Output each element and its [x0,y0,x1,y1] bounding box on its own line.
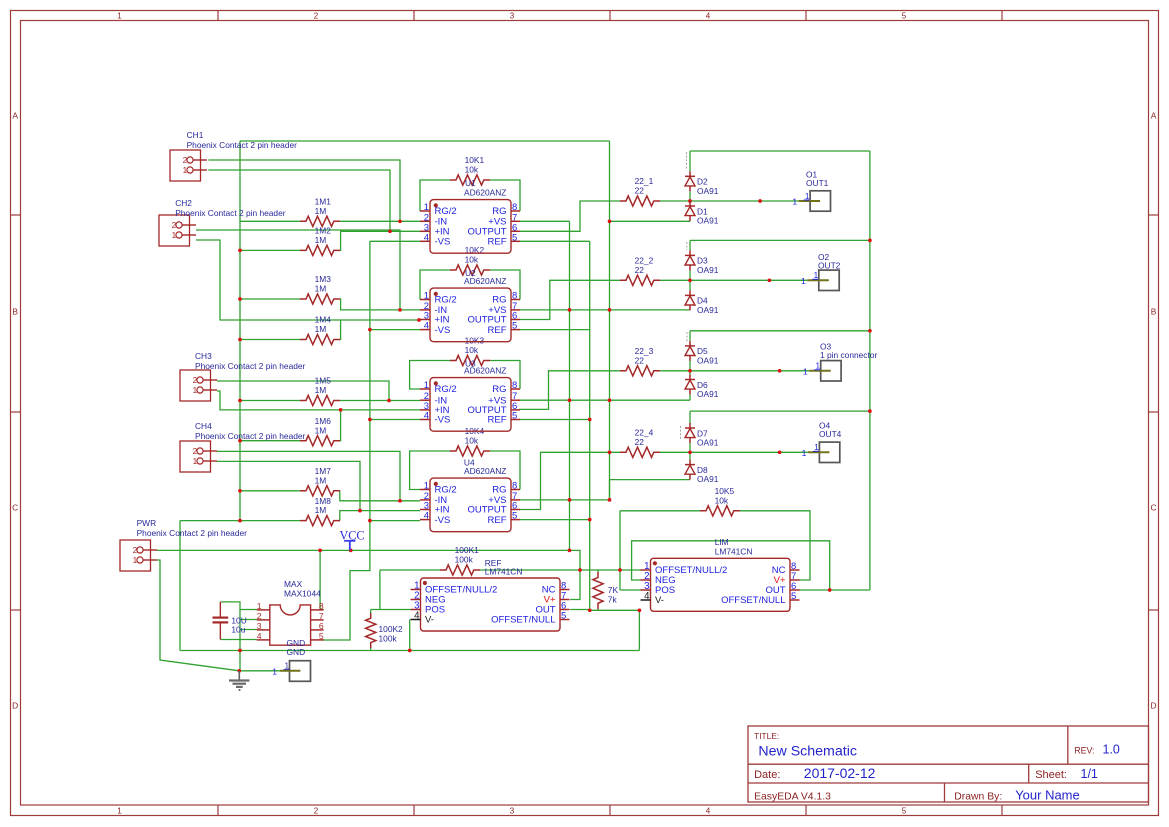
svg-text:1M: 1M [315,425,327,435]
svg-text:100k: 100k [455,555,474,565]
svg-text:5: 5 [512,411,517,422]
svg-text:OFFSET/NULL: OFFSET/NULL [491,615,555,626]
svg-text:D: D [12,701,18,711]
svg-text:4: 4 [424,232,429,243]
svg-text:D: D [1150,701,1156,711]
svg-text:1: 1 [117,806,122,815]
svg-text:A: A [1151,111,1157,121]
svg-text:10k: 10k [465,345,479,355]
svg-text:OA91: OA91 [697,305,719,315]
svg-text:LM741CN: LM741CN [715,547,753,557]
svg-text:OA91: OA91 [697,474,719,484]
svg-text:22: 22 [635,186,645,196]
svg-text:-VS: -VS [435,237,451,248]
svg-text:1: 1 [424,291,429,302]
svg-text:4: 4 [424,321,429,332]
svg-text:Phoenix Contact 2 pin header: Phoenix Contact 2 pin header [137,528,248,538]
svg-text:1 pin connector: 1 pin connector [820,350,877,360]
svg-text:EasyEDA V4.1.3: EasyEDA V4.1.3 [754,791,831,802]
svg-text:REF: REF [488,515,507,526]
svg-text:3: 3 [257,621,262,631]
svg-text:AD620ANZ: AD620ANZ [464,276,506,286]
svg-text:4: 4 [424,511,429,522]
svg-text:CH4: CH4 [195,421,212,431]
svg-text:B: B [1151,307,1157,317]
svg-text:5: 5 [512,321,517,332]
svg-text:V-: V- [655,595,664,606]
svg-text:6: 6 [319,621,324,631]
svg-text:C: C [12,503,18,513]
svg-text:4: 4 [706,806,711,815]
svg-text:OA91: OA91 [697,216,719,226]
svg-text:5: 5 [902,806,907,815]
svg-text:PWR: PWR [137,518,157,528]
svg-text:4: 4 [706,12,711,21]
svg-text:4: 4 [644,591,650,602]
svg-text:GND: GND [287,647,306,657]
svg-text:3: 3 [510,12,515,21]
svg-text:2017-02-12: 2017-02-12 [804,765,876,781]
svg-text:RG: RG [492,384,506,395]
svg-text:CH2: CH2 [175,198,192,208]
svg-text:1: 1 [792,197,797,207]
svg-text:1.0: 1.0 [1103,743,1120,757]
svg-text:1M: 1M [315,206,327,216]
svg-text:1: 1 [814,443,819,452]
svg-text:RG/2: RG/2 [435,485,457,496]
svg-text:OUT1: OUT1 [806,178,829,188]
svg-text:10u: 10u [231,625,245,635]
svg-text:5: 5 [319,631,324,641]
svg-text:1: 1 [172,231,177,240]
svg-text:-VS: -VS [435,515,451,526]
svg-text:OFFSET/NULL: OFFSET/NULL [721,595,785,606]
svg-text:1: 1 [257,601,262,611]
svg-text:Phoenix Contact 2 pin header: Phoenix Contact 2 pin header [195,431,306,441]
svg-text:1: 1 [801,276,806,286]
svg-text:1: 1 [424,380,429,391]
svg-text:OUT4: OUT4 [819,429,842,439]
svg-text:5: 5 [561,611,566,622]
svg-text:Your Name: Your Name [1015,788,1080,803]
svg-text:OA91: OA91 [697,186,719,196]
svg-text:MAX: MAX [284,579,303,589]
svg-text:LM741CN: LM741CN [485,567,523,577]
svg-text:2: 2 [314,12,319,21]
svg-text:1: 1 [193,386,198,395]
svg-text:Phoenix Contact 2 pin header: Phoenix Contact 2 pin header [187,140,298,150]
svg-text:2: 2 [193,376,198,385]
svg-text:OA91: OA91 [697,356,719,366]
svg-text:Date:: Date: [754,769,780,781]
svg-text:Phoenix Contact 2 pin header: Phoenix Contact 2 pin header [175,208,286,218]
svg-text:1: 1 [193,457,198,466]
svg-text:1M: 1M [315,235,327,245]
svg-text:22: 22 [635,437,645,447]
svg-text:2: 2 [257,611,262,621]
svg-text:REF: REF [488,237,507,248]
svg-text:New Schematic: New Schematic [758,743,857,759]
svg-text:B: B [12,307,18,317]
svg-text:100k: 100k [379,634,398,644]
svg-text:LIM: LIM [715,537,729,547]
svg-text:AD620ANZ: AD620ANZ [464,466,506,476]
svg-text:V-: V- [425,615,434,626]
svg-text:8: 8 [512,481,517,492]
svg-text:Phoenix Contact 2 pin header: Phoenix Contact 2 pin header [195,361,306,371]
svg-text:REF: REF [488,325,507,336]
svg-text:5: 5 [512,511,517,522]
svg-text:1: 1 [803,366,808,376]
svg-text:-VS: -VS [435,415,451,426]
svg-text:MAX1044: MAX1044 [284,589,321,599]
svg-text:1: 1 [805,192,810,201]
svg-text:-VS: -VS [435,325,451,336]
svg-text:1M: 1M [315,505,327,515]
svg-text:10k: 10k [465,255,479,265]
svg-text:TITLE:: TITLE: [754,731,779,741]
svg-text:Sheet:: Sheet: [1035,769,1067,781]
svg-text:1: 1 [117,12,122,21]
svg-text:RG/2: RG/2 [435,384,457,395]
svg-text:1: 1 [424,481,429,492]
svg-text:5: 5 [902,12,907,21]
svg-text:1: 1 [816,362,821,371]
svg-text:OA91: OA91 [697,265,719,275]
svg-text:8: 8 [319,601,324,611]
svg-text:1/1: 1/1 [1081,767,1098,781]
svg-text:REF: REF [488,415,507,426]
svg-text:8: 8 [512,291,517,302]
svg-text:AD620ANZ: AD620ANZ [464,188,506,198]
svg-text:1: 1 [133,556,138,565]
svg-text:1M: 1M [315,475,327,485]
svg-text:RG: RG [492,485,506,496]
svg-text:8: 8 [512,380,517,391]
svg-text:1: 1 [285,661,290,670]
svg-text:OA91: OA91 [697,438,719,448]
svg-text:U1: U1 [465,178,476,188]
svg-text:5: 5 [791,591,796,602]
svg-text:CH3: CH3 [195,351,212,361]
svg-text:RG: RG [492,295,506,306]
svg-text:RG/2: RG/2 [435,295,457,306]
svg-text:2: 2 [314,806,319,815]
svg-text:7K: 7K [608,585,619,595]
svg-text:1M: 1M [315,385,327,395]
svg-text:OA91: OA91 [697,389,719,399]
svg-text:CH1: CH1 [187,130,204,140]
svg-text:1: 1 [802,448,807,458]
svg-text:1: 1 [183,166,188,175]
svg-text:2: 2 [172,221,177,230]
svg-text:4: 4 [257,631,262,641]
svg-text:REV:: REV: [1074,745,1094,755]
svg-text:2: 2 [193,447,198,456]
svg-text:10k: 10k [465,165,479,175]
svg-text:1M: 1M [315,284,327,294]
svg-text:5: 5 [512,232,517,243]
svg-text:2: 2 [183,156,188,165]
svg-text:100K2: 100K2 [379,624,404,634]
svg-text:22: 22 [635,355,645,365]
svg-text:10k: 10k [715,495,729,505]
svg-text:OUT2: OUT2 [818,261,841,271]
svg-text:Drawn By:: Drawn By: [954,791,1002,802]
svg-text:7: 7 [319,611,324,621]
svg-text:22: 22 [635,265,645,275]
svg-text:A: A [12,111,18,121]
svg-text:1: 1 [814,271,819,280]
svg-text:C: C [1150,503,1156,513]
svg-text:7k: 7k [608,595,618,605]
svg-text:1M: 1M [315,324,327,334]
svg-text:1: 1 [272,666,277,676]
svg-text:4: 4 [424,411,429,422]
svg-text:4: 4 [414,611,420,622]
svg-text:10k: 10k [465,436,479,446]
svg-text:3: 3 [510,806,515,815]
svg-text:2: 2 [133,546,138,555]
svg-text:AD620ANZ: AD620ANZ [464,366,506,376]
